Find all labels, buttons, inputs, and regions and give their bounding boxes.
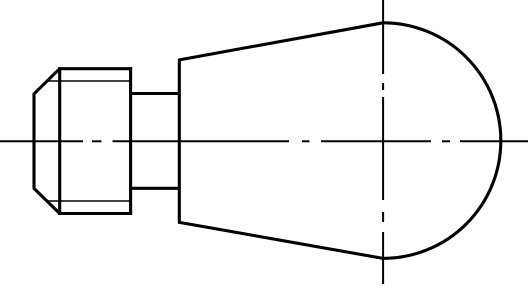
hex boss top edge — [58, 67, 132, 70]
neck bottom edge — [131, 187, 181, 190]
hex boss front corner vertical — [58, 67, 61, 215]
cone taper bottom edge — [178, 222, 383, 258]
hex boss bottom edge — [58, 212, 132, 215]
hex flat upper thin line — [47, 80, 131, 82]
hex boss bottom chamfer — [34, 188, 61, 214]
cone taper top edge — [178, 23, 383, 60]
hex boss left end-face vertical — [32, 94, 35, 189]
horizontal centerline (dash-dot axis of knob) — [0, 140, 528, 142]
vertical centerline (dash-dot axis of ball) — [382, 0, 384, 284]
hex boss top chamfer — [34, 68, 61, 94]
hex flat lower thin line — [47, 200, 131, 202]
ball end arc — [383, 23, 501, 259]
hex boss right vertical — [129, 67, 132, 215]
cone base vertical — [178, 60, 181, 222]
neck top edge — [131, 92, 181, 95]
